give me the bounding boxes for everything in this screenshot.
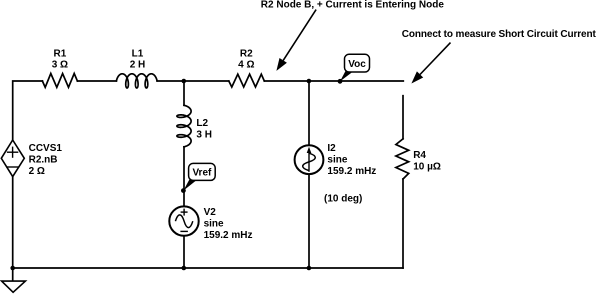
wire bottom rail bbox=[13, 267, 403, 269]
svg-text:159.2 mHz: 159.2 mHz bbox=[204, 230, 253, 241]
node I2 bottom bbox=[181, 188, 186, 193]
node Voc probe bbox=[10, 266, 15, 271]
svg-text:sine: sine bbox=[327, 155, 347, 166]
svg-text:L2: L2 bbox=[196, 118, 208, 129]
svg-text:2 Ω: 2 Ω bbox=[29, 166, 45, 177]
inductor L1 bbox=[116, 74, 157, 88]
CCVS1 plus sign bbox=[6, 147, 19, 167]
svg-text:CCVS1: CCVS1 bbox=[29, 143, 63, 154]
wire V2 to bottom rail bbox=[183, 236, 185, 268]
CCVS1 diamond bbox=[1, 140, 24, 177]
svg-text:I2: I2 bbox=[327, 143, 336, 154]
svg-text:3 H: 3 H bbox=[196, 129, 212, 140]
I2 arrow head bbox=[307, 147, 312, 153]
annotation arrow 2 bbox=[420, 43, 451, 75]
svg-text:3 Ω: 3 Ω bbox=[52, 59, 68, 70]
wire R4 to bottom rail bbox=[402, 179, 404, 268]
resistor R2 bbox=[229, 74, 264, 87]
svg-text:R2: R2 bbox=[240, 48, 253, 59]
svg-text:4 Ω: 4 Ω bbox=[238, 59, 254, 70]
V2 plus bbox=[175, 209, 192, 232]
wire R4 stub below gap bbox=[402, 96, 404, 139]
Vref callout tail bbox=[183, 180, 195, 191]
svg-text:R2 Node B, + Current is Enteri: R2 Node B, + Current is Entering Node bbox=[261, 0, 445, 10]
inductor L2 bbox=[177, 105, 191, 147]
wire R2 to top-right end bbox=[264, 80, 403, 82]
annotation arrow 1 bbox=[283, 10, 316, 61]
I2 arrow line bbox=[308, 153, 310, 172]
svg-text:R2.nB: R2.nB bbox=[29, 154, 58, 165]
node I2 top bbox=[338, 79, 343, 84]
V2 sine bbox=[175, 215, 192, 228]
svg-text:159.2 mHz: 159.2 mHz bbox=[327, 166, 376, 177]
wire R1 to L1 bbox=[77, 80, 116, 82]
ground bbox=[2, 281, 26, 292]
node ground bbox=[182, 266, 187, 271]
I2 sine bbox=[303, 153, 316, 170]
Voc callout box bbox=[345, 54, 370, 72]
node V2 bottom bbox=[307, 266, 312, 271]
resistor R4 bbox=[396, 139, 409, 179]
svg-text:Voc: Voc bbox=[348, 59, 366, 70]
svg-text:10 µΩ: 10 µΩ bbox=[413, 161, 441, 172]
wire I2 to bottom rail bbox=[308, 174, 310, 268]
junction node dots bbox=[10, 79, 342, 271]
wire L2 to V2 bbox=[183, 147, 185, 207]
Voc callout tail bbox=[340, 71, 352, 81]
wire top-left segment bbox=[13, 81, 43, 140]
V2 minus bbox=[180, 230, 188, 232]
resistor R1 bbox=[42, 74, 77, 88]
wire L2 branch top bbox=[183, 81, 185, 105]
svg-text:R1: R1 bbox=[54, 48, 67, 59]
svg-text:sine: sine bbox=[204, 218, 224, 229]
svg-text:L1: L1 bbox=[132, 48, 144, 59]
source V2 circle bbox=[169, 206, 198, 235]
wire CCVS1 to ground bbox=[12, 177, 14, 281]
Vref callout box bbox=[189, 163, 216, 180]
svg-text:2 H: 2 H bbox=[130, 59, 146, 70]
wire I2 branch top bbox=[308, 81, 310, 145]
svg-text:R4: R4 bbox=[413, 150, 426, 161]
node L2 top bbox=[307, 79, 312, 84]
wire L1 to R2 bbox=[157, 80, 229, 82]
svg-text:Vref: Vref bbox=[192, 168, 212, 179]
svg-text:(10 deg): (10 deg) bbox=[324, 193, 362, 204]
svg-text:Connect to measure Short Circu: Connect to measure Short Circuit Current bbox=[402, 29, 597, 40]
svg-text:V2: V2 bbox=[204, 207, 217, 218]
source I2 circle bbox=[295, 145, 324, 174]
CCVS1 minus sign bbox=[6, 166, 19, 168]
